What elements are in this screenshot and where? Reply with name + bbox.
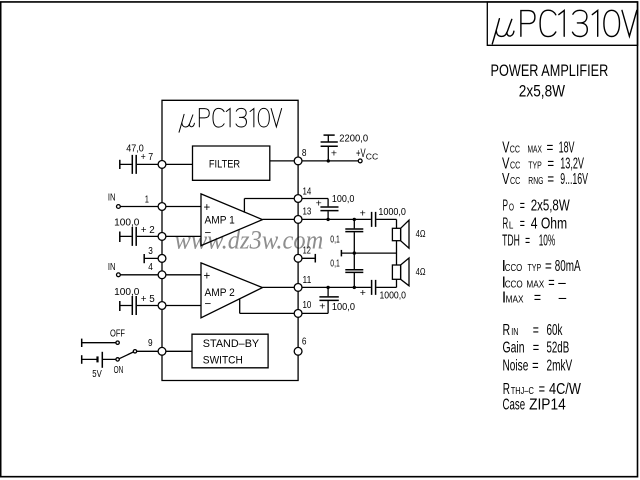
- svg-text:4Ω: 4Ω: [416, 266, 426, 277]
- svg-text:=: =: [520, 215, 525, 232]
- svg-text:–: –: [559, 290, 567, 307]
- svg-text:=: =: [520, 197, 525, 214]
- svg-text:=: =: [547, 155, 554, 172]
- svg-text:9: 9: [148, 337, 153, 349]
- svg-text:AMP 2: AMP 2: [205, 287, 235, 299]
- svg-text:+: +: [319, 300, 325, 312]
- svg-text:L: L: [509, 220, 514, 231]
- svg-text:60k: 60k: [547, 321, 563, 339]
- svg-text:10%: 10%: [539, 232, 556, 249]
- svg-text:−: −: [205, 299, 212, 311]
- svg-text:+: +: [204, 202, 211, 214]
- svg-text:=: =: [525, 232, 530, 249]
- svg-text:+: +: [204, 271, 211, 283]
- svg-text:CC: CC: [510, 143, 520, 154]
- svg-text:2mkV: 2mkV: [547, 356, 573, 374]
- svg-text:5V: 5V: [92, 368, 102, 379]
- svg-text:11: 11: [303, 274, 312, 286]
- svg-text:4C/W: 4C/W: [549, 380, 581, 397]
- svg-text:OFF: OFF: [110, 327, 125, 339]
- svg-text:ON: ON: [114, 364, 124, 376]
- svg-text:0,1: 0,1: [330, 257, 340, 269]
- svg-text:=: =: [533, 321, 539, 339]
- svg-text:14: 14: [303, 185, 312, 196]
- svg-text:ZIP14: ZIP14: [529, 397, 566, 414]
- svg-text:+ 5: + 5: [141, 294, 155, 305]
- svg-text:+ 2: + 2: [141, 225, 155, 236]
- svg-text:RNG: RNG: [528, 175, 543, 187]
- svg-text:=: =: [548, 274, 555, 291]
- svg-text:TDH: TDH: [502, 232, 520, 249]
- svg-text:CC: CC: [510, 159, 520, 170]
- svg-text:+V: +V: [356, 147, 366, 160]
- svg-text:0,1: 0,1: [330, 233, 340, 245]
- svg-text:=: =: [534, 288, 541, 306]
- svg-text:V: V: [502, 138, 509, 155]
- svg-text:100,0: 100,0: [114, 287, 140, 298]
- svg-text:100,0: 100,0: [332, 193, 355, 205]
- svg-text:www.dz3w.com: www.dz3w.com: [175, 226, 324, 255]
- svg-text:=: =: [533, 338, 540, 355]
- svg-text:1000,0: 1000,0: [378, 206, 406, 218]
- svg-text:CC: CC: [366, 151, 378, 161]
- svg-text:R: R: [503, 215, 509, 233]
- svg-text:IN: IN: [511, 326, 518, 337]
- svg-text:−: −: [205, 228, 212, 240]
- svg-text:CC: CC: [510, 175, 520, 186]
- svg-text:SWITCH: SWITCH: [203, 354, 243, 366]
- svg-text:10: 10: [303, 299, 312, 310]
- svg-text:+: +: [360, 287, 366, 299]
- svg-text:1000,0: 1000,0: [380, 290, 406, 302]
- svg-text:100,0: 100,0: [332, 301, 356, 313]
- svg-text:3: 3: [148, 245, 153, 257]
- svg-text:80mA: 80mA: [555, 257, 581, 275]
- svg-text:TYP: TYP: [528, 262, 542, 273]
- svg-text:+: +: [360, 208, 366, 220]
- svg-text:FILTER: FILTER: [209, 159, 240, 171]
- svg-text:V: V: [502, 170, 510, 187]
- svg-text:MAX: MAX: [506, 294, 524, 305]
- svg-text:POWER AMPLIFIER: POWER AMPLIFIER: [491, 63, 609, 81]
- svg-text:13: 13: [303, 205, 312, 216]
- svg-text:Case: Case: [503, 395, 526, 413]
- svg-text:CCO: CCO: [505, 279, 523, 290]
- svg-text:Gain: Gain: [503, 338, 525, 356]
- svg-text:4: 4: [148, 261, 153, 273]
- svg-text:=: =: [547, 170, 554, 187]
- svg-text:2x5,8W: 2x5,8W: [519, 82, 566, 100]
- svg-text:=: =: [532, 357, 539, 374]
- svg-text:CCO: CCO: [505, 262, 522, 273]
- svg-text:4 Ohm: 4 Ohm: [531, 214, 567, 232]
- svg-text:1: 1: [145, 193, 149, 204]
- svg-text:Noise: Noise: [503, 356, 529, 374]
- svg-text:+: +: [316, 198, 322, 210]
- svg-text:MAX: MAX: [528, 143, 543, 155]
- svg-text:AMP 1: AMP 1: [205, 214, 235, 226]
- svg-text:52dB: 52dB: [547, 338, 570, 356]
- svg-text:R: R: [503, 321, 511, 339]
- svg-text:STAND–BY: STAND–BY: [203, 338, 260, 350]
- svg-text:2x5,8W: 2x5,8W: [531, 197, 570, 214]
- svg-text:6: 6: [302, 336, 307, 348]
- svg-text:P: P: [503, 197, 508, 214]
- svg-text:8: 8: [302, 147, 307, 159]
- svg-text:O: O: [509, 201, 515, 213]
- svg-text:=: =: [545, 257, 552, 274]
- svg-text:+ 7: + 7: [141, 151, 154, 163]
- svg-text:9...16V: 9...16V: [560, 170, 588, 187]
- svg-text:4Ω: 4Ω: [416, 228, 426, 239]
- svg-text:=: =: [547, 139, 554, 156]
- svg-text:TYP: TYP: [528, 159, 542, 171]
- svg-text:=: =: [539, 380, 546, 397]
- svg-text:100,0: 100,0: [114, 217, 140, 228]
- svg-text:18V: 18V: [559, 139, 575, 156]
- svg-text:12: 12: [303, 244, 311, 256]
- svg-text:+: +: [331, 148, 337, 160]
- svg-text:IN: IN: [108, 191, 116, 202]
- svg-text:IN: IN: [108, 261, 116, 272]
- svg-text:2200,0: 2200,0: [339, 133, 368, 145]
